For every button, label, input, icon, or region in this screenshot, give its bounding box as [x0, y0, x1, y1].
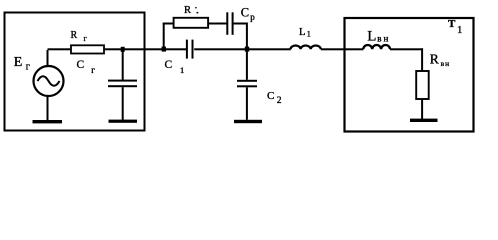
label C2: [267, 90, 282, 106]
svg-text:R: R: [184, 5, 191, 16]
resistor Rвн: [416, 71, 429, 99]
wire source bottom to ground: [47, 95, 49, 120]
capacitor Cр left plate: [226, 12, 228, 35]
label Lвн: [367, 28, 390, 44]
wire Lвн to corner: [390, 48, 423, 50]
wire Cг bottom plate to ground: [122, 87, 124, 120]
svg-text:L: L: [367, 28, 376, 44]
generator block box: [5, 13, 145, 131]
svg-text:C: C: [77, 59, 85, 71]
svg-text:C: C: [165, 59, 173, 71]
svg-text:R: R: [71, 30, 78, 41]
svg-text:E: E: [14, 55, 23, 70]
label C1: [165, 59, 185, 75]
svg-text:г: г: [91, 65, 95, 75]
svg-text:1: 1: [307, 30, 311, 39]
AC source sine wave: [38, 76, 60, 86]
wire Cр right plate to corner: [234, 23, 248, 25]
svg-text:вн: вн: [441, 59, 451, 68]
svg-text:T: T: [448, 18, 456, 30]
label Cг: [77, 59, 96, 75]
capacitor C1 left plate: [186, 40, 188, 59]
wire R1 to capacitor Cр: [208, 23, 227, 25]
label R1: [184, 5, 198, 16]
junction dot node A: [162, 47, 166, 52]
capacitor C2 bottom plate: [237, 85, 257, 87]
wire C2 bottom plate to ground: [246, 87, 248, 120]
label L1: [299, 27, 311, 39]
svg-text:L: L: [299, 27, 305, 38]
label T1: [448, 18, 463, 36]
label Rвн: [430, 51, 450, 68]
svg-text:C: C: [241, 5, 249, 19]
inductor L1: [291, 45, 321, 49]
capacitor Cг top plate: [108, 80, 137, 82]
label Eг: [14, 55, 30, 73]
main wire box edge to node A: [145, 48, 187, 50]
svg-text:R: R: [430, 51, 439, 66]
capacitor Cр right plate: [232, 12, 234, 35]
svg-text:1: 1: [457, 24, 463, 36]
resistor Rг: [71, 45, 104, 53]
resistor R1: [174, 18, 209, 28]
wire node A up to R1 branch: [163, 23, 165, 49]
junction dot node B: [245, 47, 249, 52]
capacitor C2 top plate: [237, 80, 257, 82]
ground bar under Cг: [109, 120, 138, 123]
ground bar under Rвн: [410, 119, 438, 122]
inductor Lвн: [363, 45, 390, 49]
wire Cг tap down to capacitor: [122, 50, 124, 80]
svg-text:г: г: [26, 61, 30, 72]
label Cр: [241, 5, 255, 21]
wire corner down to Rвн: [421, 48, 423, 71]
ground bar under C2: [234, 120, 262, 123]
main wire segment source to resistor Rг: [48, 48, 72, 50]
capacitor C1 right plate: [192, 40, 194, 59]
svg-text:вн: вн: [377, 34, 390, 44]
capacitor Cг bottom plate: [108, 85, 137, 87]
label Rг: [71, 30, 88, 43]
wire branch corner to R1: [163, 23, 174, 25]
main wire L1 to T1 box and inductor: [321, 48, 364, 50]
main wire C1 to L1: [194, 48, 291, 50]
main wire Rг to box edge: [104, 48, 145, 50]
wire corner down to node B: [246, 23, 248, 49]
svg-text:2: 2: [277, 96, 282, 106]
wire source top to main wire: [47, 50, 49, 67]
svg-text:1: 1: [180, 65, 184, 75]
junction dot at Cг tap: [121, 47, 125, 52]
T1 block box: [345, 18, 474, 132]
AC source E1 circle: [34, 66, 64, 96]
wire node B down to C2: [246, 50, 248, 80]
svg-text:р: р: [250, 12, 255, 22]
wire Rвн to ground: [421, 99, 423, 120]
ground bar under source: [33, 120, 63, 123]
svg-text:C: C: [267, 90, 274, 102]
